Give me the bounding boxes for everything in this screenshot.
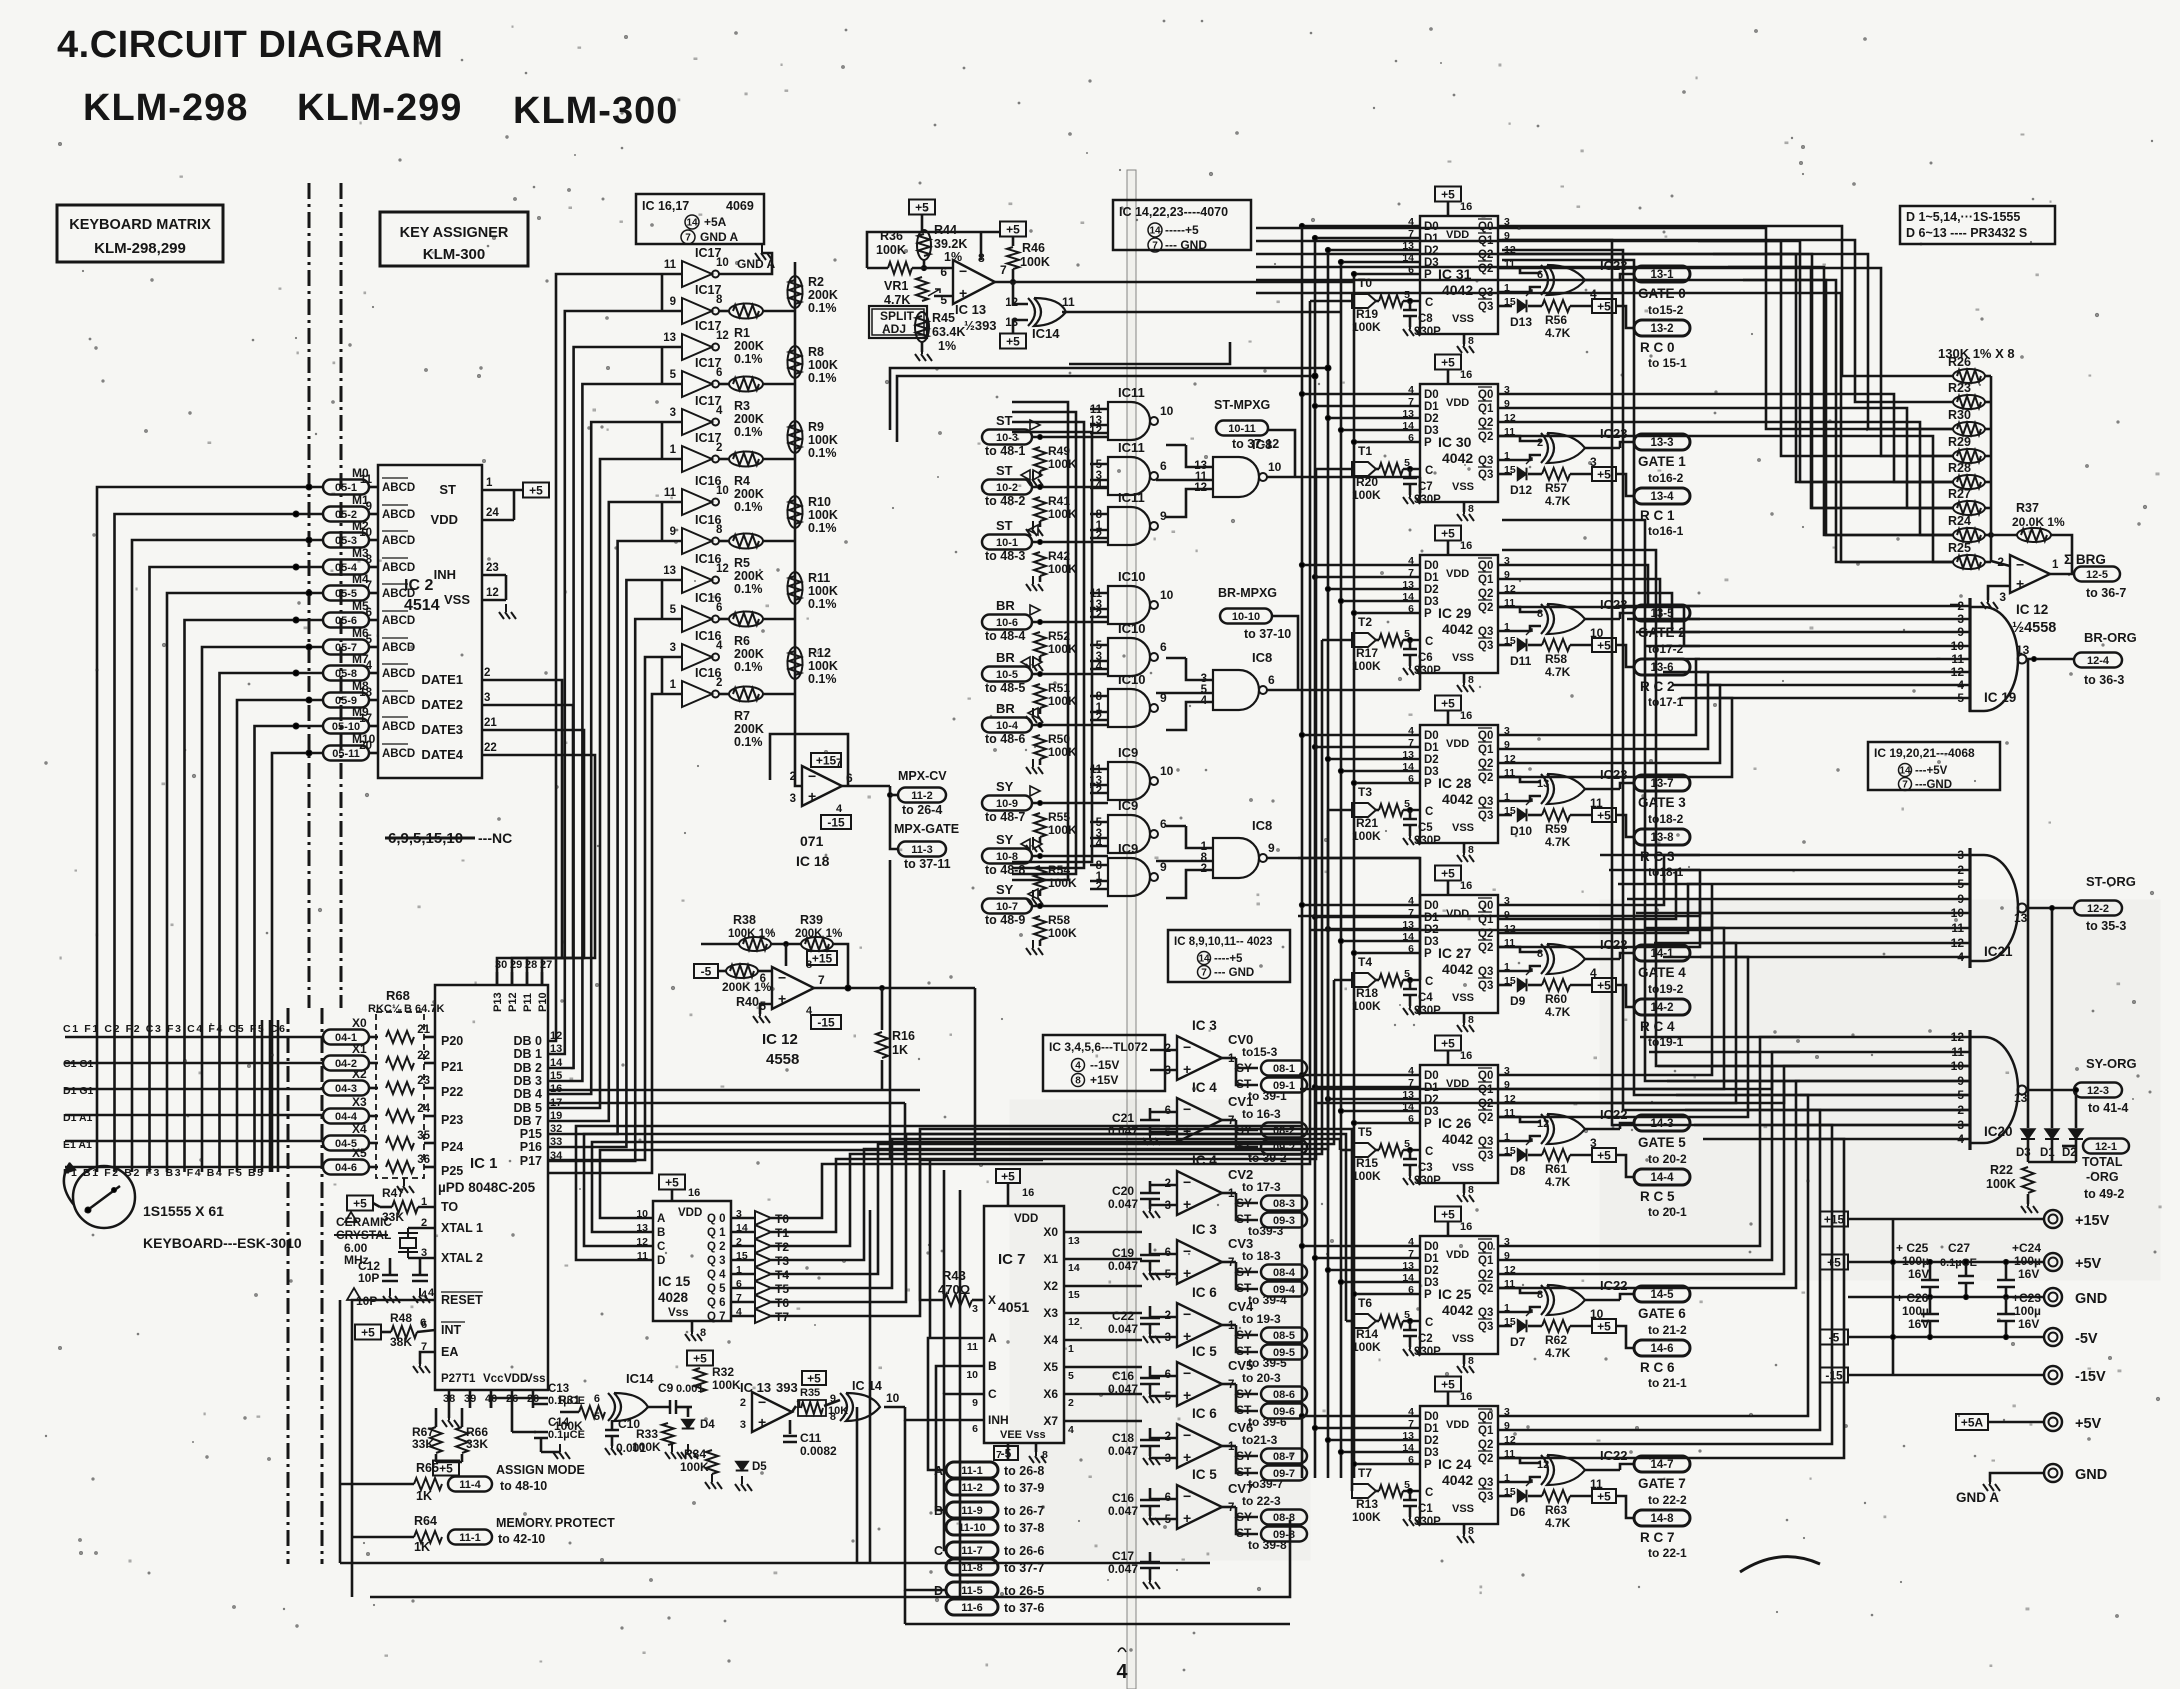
svg-text:R58: R58	[1048, 913, 1070, 927]
wire bus feed 2	[1340, 311, 1343, 314]
svg-text:SY: SY	[996, 779, 1014, 794]
svg-text:P: P	[1424, 1118, 1432, 1130]
svg-text:12-3: 12-3	[2087, 1085, 2109, 1097]
svg-text:MEMORY PROTECT: MEMORY PROTECT	[496, 1516, 615, 1530]
svg-text:MPX-CV: MPX-CV	[898, 769, 947, 783]
svg-text:+5: +5	[1441, 1378, 1455, 1392]
svg-text:XTAL 1: XTAL 1	[441, 1221, 483, 1235]
svg-text:10-5: 10-5	[996, 669, 1018, 681]
wire nest Q12	[1498, 659, 1700, 735]
wire nest Q10	[1498, 593, 1700, 632]
NAND gate IC11 at y421	[1108, 402, 1150, 440]
op-amp U12b ERG	[2010, 555, 2050, 593]
wire T to C IC27	[1376, 979, 1379, 982]
resistor R62	[1542, 1320, 1570, 1332]
svg-text:P20: P20	[441, 1034, 463, 1048]
svg-text:28: 28	[525, 959, 537, 971]
capacitor C20	[1149, 1181, 1152, 1193]
ground IC26	[1463, 1183, 1466, 1193]
wire IC8 y690 inputs	[1166, 657, 1186, 660]
wire bus P16 to inverter 11	[548, 657, 660, 1160]
wire ladder output	[1989, 533, 1994, 538]
svg-text:0.047: 0.047	[1108, 1322, 1138, 1336]
wire R4 to rail	[763, 458, 795, 461]
wire R40 to opamp	[758, 970, 772, 973]
svg-text:D2: D2	[1424, 413, 1439, 425]
svg-text:+5: +5	[1441, 1037, 1455, 1051]
wire nest Q7	[1498, 436, 1953, 562]
wire inverter to R1	[719, 310, 729, 313]
svg-text:3: 3	[740, 1419, 746, 1431]
wire inverter loop 10	[661, 657, 664, 694]
inverter IC16 #2	[682, 528, 712, 554]
wire mid verticals 3	[856, 1407, 859, 1563]
wire bus DB9 to inverter	[548, 619, 660, 1161]
svg-text:Q0: Q0	[1478, 389, 1493, 401]
svg-text:+5: +5	[1441, 1208, 1455, 1222]
wire IC20 out	[2026, 1089, 2074, 1092]
wire diode chain IC24	[1528, 1495, 1542, 1498]
ground at C13 C14	[540, 1438, 543, 1452]
wire bottom bus 1	[340, 1562, 1210, 1565]
power +5 R58	[1592, 638, 1616, 652]
wire nest upper 2	[1728, 267, 1953, 535]
svg-text:VDD: VDD	[1446, 397, 1469, 409]
svg-text:9: 9	[1160, 509, 1167, 523]
svg-text:10P: 10P	[358, 1271, 379, 1285]
wire R25 right	[1985, 561, 1991, 564]
svg-text:15: 15	[1068, 1289, 1080, 1301]
op-amp U18 071	[802, 766, 842, 806]
wire Q3 to XOR IC25	[1498, 1307, 1541, 1312]
svg-text:1: 1	[2052, 559, 2059, 571]
junction node M5	[293, 617, 299, 623]
IC IC29 4042 body	[1420, 555, 1498, 673]
svg-text:D3: D3	[1424, 766, 1439, 778]
svg-text:RESET: RESET	[441, 1293, 483, 1307]
svg-text:8: 8	[1468, 844, 1474, 856]
connector 13-8 R C 3	[1634, 829, 1690, 845]
svg-text:6: 6	[366, 607, 372, 619]
wire T1 route	[792, 469, 1316, 1232]
XOR gate IC22 block7	[1541, 1455, 1548, 1485]
wire ic8 out 2 route	[1419, 664, 1422, 690]
IC IC28 4042 body	[1420, 725, 1498, 843]
power terminal -5V	[2044, 1328, 2062, 1346]
capacitor C6	[1409, 640, 1412, 649]
wire inverter loop 2	[661, 347, 664, 384]
note box diodes D1-D13	[1900, 206, 2055, 244]
wire bus DB3 to inverter	[548, 384, 660, 1081]
svg-text:+5: +5	[1006, 335, 1020, 349]
svg-text:08-2: 08-2	[1273, 1125, 1295, 1137]
svg-text:X4: X4	[1043, 1333, 1058, 1347]
svg-text:VDD: VDD	[1446, 1419, 1469, 1431]
svg-text:R26: R26	[1948, 355, 1971, 369]
svg-text:08-3: 08-3	[1273, 1198, 1295, 1210]
svg-text:ABCD: ABCD	[382, 535, 415, 547]
svg-text:R14: R14	[1356, 1327, 1378, 1341]
svg-text:to 36-7: to 36-7	[2086, 586, 2126, 600]
wire ladder rail	[794, 262, 797, 770]
wire R36 left	[867, 267, 888, 270]
svg-text:X3: X3	[352, 1095, 367, 1109]
svg-text:+15V: +15V	[1090, 1073, 1118, 1087]
svg-text:D0: D0	[1424, 560, 1439, 572]
svg-text:8: 8	[1468, 1525, 1474, 1537]
svg-text:R4: R4	[734, 474, 750, 488]
ground at P27	[448, 1408, 451, 1418]
matrix row wire 4	[65, 1140, 322, 1143]
NAND gate U21 4068	[1968, 848, 1971, 968]
wire bus to IC30 D4	[1354, 441, 1420, 444]
svg-text:100K: 100K	[808, 433, 838, 447]
wire bus to IC25 D4	[1354, 1293, 1420, 1296]
wire bus feed 1	[1353, 281, 1355, 283]
note box IC14,22,23 4070	[1113, 200, 1251, 250]
resistor R60	[1542, 979, 1570, 991]
svg-text:IC 4: IC 4	[1192, 1080, 1217, 1095]
svg-text:P12: P12	[507, 992, 519, 1012]
diode D10	[1498, 814, 1512, 817]
wire bus DB7 to inverter	[548, 541, 660, 1134]
svg-text:4: 4	[836, 803, 843, 815]
wire nest Q25	[1498, 1052, 1800, 1260]
svg-text:+: +	[1183, 1328, 1191, 1344]
junction node M4	[306, 590, 312, 596]
capacitor C5	[1409, 810, 1412, 819]
svg-text:IC9: IC9	[1118, 841, 1138, 856]
svg-text:IC 5: IC 5	[1192, 1467, 1217, 1482]
wire CV6 out	[1222, 1445, 1236, 1448]
wire nest top 4	[1256, 280, 1953, 535]
svg-text:0.047: 0.047	[1108, 1562, 1138, 1576]
svg-text:to 18-3: to 18-3	[1242, 1249, 1281, 1263]
svg-text:C27: C27	[1948, 1241, 1970, 1255]
svg-text:1%: 1%	[938, 339, 956, 353]
svg-text:Q2: Q2	[1478, 431, 1493, 443]
svg-text:2: 2	[1068, 1397, 1074, 1409]
svg-text:1K: 1K	[414, 1540, 430, 1554]
svg-text:R10: R10	[808, 495, 831, 509]
svg-text:11-7: 11-7	[961, 1545, 982, 1557]
svg-text:Q2: Q2	[1478, 1439, 1493, 1451]
resistor R7	[729, 687, 763, 702]
svg-text:to 42-10: to 42-10	[498, 1532, 545, 1546]
svg-text:Q 0: Q 0	[707, 1213, 726, 1225]
wire xor out	[1062, 311, 1341, 314]
svg-text:ABCD: ABCD	[382, 721, 415, 733]
svg-text:P: P	[1424, 437, 1432, 449]
connector 13-2 R C 0	[1634, 320, 1690, 336]
ground C18	[1149, 1446, 1152, 1456]
svg-text:D10: D10	[1510, 824, 1532, 838]
wire mid horizontal feed A	[920, 1159, 1043, 1162]
svg-text:3: 3	[484, 692, 490, 704]
wire R37 loop	[2051, 535, 2072, 574]
svg-text:T3: T3	[1358, 785, 1372, 799]
svg-text:to17-2: to17-2	[1648, 642, 1684, 656]
svg-text:to 39-5: to 39-5	[1248, 1356, 1287, 1370]
input T2	[1352, 633, 1376, 647]
wire 10-4 to gate	[1032, 724, 1108, 727]
svg-text:C20: C20	[1112, 1184, 1134, 1198]
wire 10-6 to gate	[1032, 621, 1108, 624]
svg-text:D1: D1	[1424, 1423, 1439, 1435]
svg-text:P: P	[1424, 778, 1432, 790]
svg-text:200K: 200K	[808, 288, 838, 302]
resistor R56	[1542, 300, 1570, 312]
svg-text:DB 3: DB 3	[514, 1074, 543, 1088]
svg-text:22: 22	[484, 742, 497, 754]
wire CV4 out	[1222, 1324, 1236, 1327]
wire nest Q14	[1498, 685, 1720, 763]
IC U2 4514 body	[378, 465, 482, 778]
svg-text:22: 22	[417, 1050, 430, 1062]
connector 14-4 R C 5	[1634, 1169, 1690, 1185]
svg-text:C9: C9	[658, 1381, 674, 1395]
svg-text:C8: C8	[1418, 313, 1433, 325]
connector 05-2	[323, 507, 369, 522]
wire T to C IC24	[1376, 1490, 1379, 1493]
svg-text:100K: 100K	[1048, 642, 1077, 656]
wire nest Q24	[1498, 1037, 1800, 1246]
svg-text:C2: C2	[1418, 1333, 1433, 1345]
svg-text:4: 4	[366, 660, 373, 672]
svg-text:Q 1: Q 1	[707, 1227, 726, 1239]
wire to R64	[352, 1536, 414, 1539]
wire R26 right	[1985, 375, 1991, 378]
svg-text:04-6: 04-6	[335, 1162, 357, 1174]
svg-text:D0: D0	[1424, 389, 1439, 401]
connector 14-8 R C 7	[1634, 1510, 1690, 1526]
wire bus to IC27 D2	[1328, 928, 1420, 931]
svg-text:14: 14	[1068, 1262, 1080, 1274]
svg-text:C18: C18	[1112, 1431, 1134, 1445]
buffer T6	[731, 1301, 755, 1304]
connector 04-5	[323, 1136, 369, 1151]
wire CV6 inputs	[1150, 1437, 1177, 1440]
svg-text:MPX-GATE: MPX-GATE	[894, 822, 959, 836]
wire bus DB4 to inverter	[548, 422, 660, 1094]
IC1 top pin P10	[541, 972, 544, 985]
svg-text:+5: +5	[529, 484, 543, 498]
svg-text:11-3: 11-3	[911, 844, 932, 856]
svg-text:16: 16	[1460, 880, 1472, 892]
wire ladder to opamp IC18	[795, 770, 802, 786]
svg-text:0.1%: 0.1%	[808, 446, 837, 460]
svg-text:T6: T6	[1358, 1296, 1372, 1310]
resistor R42	[1034, 552, 1046, 576]
wire Q2bar to XOR IC31	[1498, 268, 1541, 273]
wire T feed T2	[1322, 639, 1352, 642]
svg-text:Q2: Q2	[1478, 588, 1493, 600]
svg-text:X1: X1	[1043, 1252, 1058, 1266]
wire mid verticals 1	[929, 1160, 932, 1338]
wire T feed T3	[1328, 809, 1352, 812]
svg-text:Q1: Q1	[1478, 1255, 1494, 1267]
svg-text:Q1: Q1	[1478, 574, 1494, 586]
svg-text:Q3: Q3	[1478, 810, 1493, 822]
matrix row wire 0	[65, 1036, 322, 1039]
svg-text:4: 4	[716, 640, 723, 652]
svg-text:11-6: 11-6	[961, 1602, 982, 1614]
svg-text:SY: SY	[996, 882, 1014, 897]
svg-text:to 26-8: to 26-8	[1004, 1464, 1044, 1478]
svg-text:--- GND: --- GND	[1214, 967, 1254, 979]
svg-text:11: 11	[360, 474, 373, 486]
wire bus to IC29 D3	[1341, 600, 1420, 603]
svg-text:100K: 100K	[1048, 457, 1077, 471]
wire nest Q2	[1498, 254, 1953, 429]
svg-text:−: −	[2016, 557, 2024, 573]
svg-text:R2: R2	[808, 275, 824, 289]
svg-text:X7: X7	[1043, 1414, 1058, 1428]
wire nest Q8	[1498, 565, 1700, 606]
XOR gate IC23 block1	[1541, 433, 1548, 463]
wire IC7 B	[936, 1366, 984, 1510]
svg-text:4: 4	[716, 405, 723, 417]
svg-text:to 48-5: to 48-5	[985, 681, 1025, 695]
connector 10-8	[982, 849, 1032, 864]
wire DATE1 to IC1	[482, 680, 562, 985]
svg-text:INH: INH	[434, 567, 456, 582]
svg-text:X2: X2	[1043, 1279, 1058, 1293]
wire IC8 y858 output	[1267, 857, 1420, 860]
svg-text:7: 7	[1152, 241, 1158, 252]
svg-text:D1: D1	[1424, 1253, 1439, 1265]
buffer T3	[731, 1259, 755, 1262]
svg-text:R44: R44	[934, 223, 957, 237]
svg-text:KLM-298,299: KLM-298,299	[94, 240, 186, 257]
wire diode chain IC30	[1528, 473, 1542, 476]
power +5 at R47	[347, 1196, 373, 1211]
svg-text:R47: R47	[382, 1186, 404, 1200]
svg-text:Q2: Q2	[1478, 1453, 1493, 1465]
svg-text:+5: +5	[439, 1462, 453, 1476]
svg-text:14-2: 14-2	[1650, 1002, 1673, 1014]
svg-text:Q1: Q1	[1478, 403, 1494, 415]
svg-text:16: 16	[1460, 710, 1472, 722]
resistor R52	[1034, 632, 1046, 656]
svg-text:2: 2	[716, 677, 722, 689]
wire VR1 wiper	[934, 295, 953, 298]
svg-text:12-4: 12-4	[2087, 655, 2110, 667]
svg-text:6: 6	[1160, 817, 1167, 831]
svg-text:VSS: VSS	[1452, 1503, 1474, 1515]
connector 11-8	[946, 1559, 998, 1575]
wire Q2bar to XOR IC24	[1498, 1458, 1541, 1463]
IC1 top pin P12	[511, 972, 514, 985]
wire IC8 y477 output	[1267, 476, 1420, 479]
svg-text:+5: +5	[1441, 356, 1455, 370]
ground C4	[1409, 995, 1412, 1006]
wire mid verticals 4	[869, 1210, 872, 1563]
svg-text:DB 4: DB 4	[514, 1087, 543, 1101]
wire MPX vertical	[889, 860, 892, 1160]
wire Q3 to XOR IC27	[1498, 966, 1541, 971]
svg-text:R58: R58	[1545, 652, 1567, 666]
svg-text:SY: SY	[996, 832, 1014, 847]
capacitor C22	[1149, 1306, 1152, 1318]
svg-text:8: 8	[366, 554, 373, 566]
capacitor C19	[1149, 1243, 1152, 1255]
resistor R44	[917, 230, 931, 260]
svg-text:3: 3	[670, 642, 676, 654]
resistor R19	[1379, 295, 1403, 307]
wire T4 route	[792, 980, 1334, 1274]
wire XOR out IC28	[1585, 788, 1620, 791]
wire 05-11 to IC2	[369, 752, 378, 755]
svg-text:13: 13	[1068, 1235, 1080, 1247]
svg-text:9: 9	[670, 296, 676, 308]
svg-text:VDD: VDD	[678, 1207, 702, 1219]
svg-text:Q 3: Q 3	[707, 1255, 726, 1267]
diode D12	[1498, 473, 1512, 476]
svg-text:VR1: VR1	[884, 279, 908, 293]
svg-text:05-11: 05-11	[332, 748, 360, 760]
ground C20	[1149, 1199, 1152, 1209]
wire data bus vertical 4	[1353, 274, 1356, 1478]
svg-text:IC 19: IC 19	[1984, 690, 2016, 705]
svg-text:KLM-300: KLM-300	[423, 246, 486, 263]
svg-text:−: −	[1183, 1488, 1191, 1504]
svg-text:+15: +15	[816, 754, 837, 768]
svg-text:Q2: Q2	[1478, 1269, 1493, 1281]
svg-text:11: 11	[664, 487, 677, 499]
resistor R1	[729, 304, 763, 319]
connector 12-1 TOTAL-ORG	[2083, 1139, 2129, 1154]
svg-text:08-4: 08-4	[1273, 1267, 1296, 1279]
svg-text:100µ: 100µ	[2014, 1254, 2041, 1268]
wire nest Q17	[1498, 870, 1700, 919]
ground at R47	[403, 1178, 405, 1186]
svg-text:C3: C3	[1418, 1162, 1433, 1174]
wire nest Q9	[1498, 579, 1700, 619]
svg-text:12: 12	[1537, 1459, 1549, 1471]
junction node M7	[293, 670, 299, 676]
svg-text:D2: D2	[1424, 1435, 1439, 1447]
svg-text:14: 14	[1149, 226, 1161, 237]
svg-text:to 49-2: to 49-2	[2084, 1187, 2124, 1201]
ground C5	[1409, 825, 1412, 836]
wire ERG out	[2050, 573, 2074, 576]
svg-text:R15: R15	[1356, 1156, 1378, 1170]
ground at R42	[1039, 576, 1042, 582]
resistor R21	[1379, 804, 1403, 816]
svg-text:D0: D0	[1424, 1241, 1439, 1253]
svg-text:IC9: IC9	[1118, 745, 1138, 760]
svg-text:6: 6	[716, 602, 722, 614]
wire 10-7 to gate	[1032, 905, 1108, 908]
svg-text:to 20-1: to 20-1	[1648, 1205, 1687, 1219]
svg-text:R64: R64	[414, 1514, 437, 1528]
svg-text:R46: R46	[1022, 241, 1045, 255]
svg-text:D3: D3	[1424, 936, 1439, 948]
svg-text:0.047: 0.047	[1108, 1444, 1138, 1458]
svg-text:16V: 16V	[1908, 1267, 1929, 1281]
resistor R39	[801, 937, 833, 951]
svg-text:Q3: Q3	[1478, 966, 1493, 978]
wire gate bus vertical 0	[1012, 402, 1068, 880]
wire R24 right	[1985, 534, 1991, 537]
wire bus to IC31 D0	[1302, 225, 1420, 228]
wire inverter loop 6	[661, 502, 664, 541]
svg-text:DATE1: DATE1	[421, 672, 463, 687]
svg-text:IC 24: IC 24	[1438, 1456, 1472, 1472]
svg-text:+5: +5	[1597, 639, 1611, 653]
ground IC29	[1463, 673, 1466, 683]
